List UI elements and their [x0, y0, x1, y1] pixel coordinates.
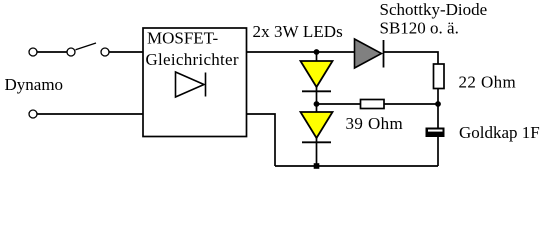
svg-text:39 Ohm: 39 Ohm	[346, 114, 404, 133]
wire top terminal to switch	[37, 51, 67, 53]
terminal circle top-left	[29, 48, 37, 56]
node A junction dot	[314, 49, 320, 55]
LED D2 yellow	[301, 112, 333, 138]
wire node B to LED2	[316, 104, 318, 113]
svg-text:Dynamo: Dynamo	[5, 75, 64, 94]
svg-text:Goldkap 1F: Goldkap 1F	[459, 123, 540, 142]
svg-text:MOSFET-: MOSFET-	[147, 29, 219, 48]
wire LED1 apex to node B	[316, 87, 318, 104]
switch blade	[76, 43, 97, 50]
capacitor C1 Goldkap body	[426, 128, 445, 138]
wire box lower right pin	[247, 114, 276, 166]
svg-text:SB120 o. ä.: SB120 o. ä.	[380, 19, 459, 38]
wire switch to rectifier box	[109, 51, 143, 53]
schottky diode D3 gray triangle	[355, 39, 382, 68]
wire R1 to node C	[437, 89, 439, 105]
wire node A to LED1	[316, 52, 318, 62]
node D junction dot	[314, 163, 320, 169]
switch throw circle	[101, 48, 109, 56]
switch pole circle	[67, 48, 75, 56]
rectifier box U1	[143, 28, 247, 137]
svg-text:Gleichrichter: Gleichrichter	[146, 50, 239, 69]
svg-text:Schottky-Diode: Schottky-Diode	[380, 0, 488, 19]
LED D1 cathode bar	[302, 90, 331, 92]
node B junction dot	[314, 101, 320, 107]
resistor R1 22 Ohm body	[434, 64, 445, 89]
capacitor C1 top plate white stripe	[428, 130, 443, 132]
svg-text:2x 3W LEDs: 2x 3W LEDs	[253, 22, 343, 41]
schottky cathode bar	[383, 40, 385, 68]
wire node C to capacitor	[437, 104, 439, 128]
wire bottom terminal to rectifier box	[37, 113, 143, 115]
LED D1 yellow	[301, 61, 333, 87]
wire box to schottky anode (through LED node)	[247, 51, 355, 53]
terminal circle bottom-left	[29, 110, 37, 118]
LED D2 cathode bar	[302, 141, 331, 143]
resistor R2 39 Ohm body	[361, 100, 385, 109]
bottom rail wire	[275, 165, 438, 167]
wire capacitor to bottom rail	[437, 137, 439, 166]
wire node B to R2	[317, 103, 361, 105]
wire LED2 apex to bottom rail	[316, 138, 318, 166]
wire R2 to node C	[384, 103, 438, 105]
node C junction dot	[435, 101, 441, 107]
diode symbol inside box	[176, 72, 206, 97]
wire schottky to right corner	[384, 52, 439, 64]
svg-text:22 Ohm: 22 Ohm	[459, 73, 517, 92]
